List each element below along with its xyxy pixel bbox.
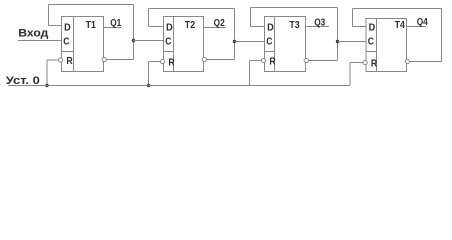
svg-text:T1: T1 bbox=[86, 20, 97, 31]
svg-text:D: D bbox=[166, 22, 173, 33]
flip-flop T2 body outline bbox=[164, 17, 204, 72]
flip-flop T1 body outline bbox=[62, 17, 104, 72]
wire: reset vertical riser of T3 bbox=[249, 61, 251, 86]
wire: clock link T2 to C input of T3 bbox=[235, 41, 265, 43]
svg-text:T2: T2 bbox=[185, 20, 196, 31]
node: junction of T1 feedback and clock link bbox=[132, 39, 135, 42]
T2 separator above R section bbox=[164, 51, 174, 53]
svg-text:C: C bbox=[63, 36, 70, 47]
wire: output stub Q2 bbox=[204, 27, 226, 29]
svg-text:R: R bbox=[371, 59, 378, 70]
wire: output stub Q4 bbox=[407, 26, 427, 28]
wire: feedback top of T1 bbox=[49, 4, 134, 6]
flip-flop T4 body outline bbox=[366, 19, 407, 72]
wire: inverted output of T1 to feedback vertical bbox=[107, 59, 134, 61]
inverted output bubble of T4 bbox=[405, 59, 409, 63]
svg-text:C: C bbox=[368, 36, 375, 47]
T4 separator above R section bbox=[366, 51, 377, 53]
svg-text:D: D bbox=[64, 22, 71, 33]
svg-text:R: R bbox=[168, 58, 175, 69]
T2 control-column divider bbox=[173, 17, 175, 72]
wire: D input of T3 bbox=[251, 26, 265, 28]
wire: feedback left vertical to D of T1 bbox=[48, 5, 50, 26]
flip-flop T3 body outline bbox=[265, 17, 306, 72]
svg-text:T3: T3 bbox=[289, 20, 300, 31]
inverted output bubble of T1 bbox=[102, 57, 106, 61]
wire: feedback top of T4 bbox=[353, 8, 442, 10]
svg-text:C: C bbox=[266, 36, 273, 47]
inverted output bubble of T3 bbox=[304, 58, 308, 62]
wire: reset riser to R of T2 bbox=[149, 61, 161, 63]
T4 control-column divider bbox=[376, 19, 378, 72]
R input inversion bubble of T2 bbox=[160, 59, 164, 63]
T1 separator above R section bbox=[62, 51, 74, 53]
inverted output bubble of T2 bbox=[202, 57, 206, 61]
T1 control-column divider bbox=[73, 17, 75, 72]
wire: output stub Q1 bbox=[104, 27, 122, 29]
T3 separator above R section bbox=[265, 51, 275, 53]
node: reset bus junction at T1 bbox=[45, 84, 48, 87]
wire: reset riser to R of T4 bbox=[350, 62, 363, 64]
svg-text:Q2: Q2 bbox=[214, 18, 225, 29]
wire: reset riser to R of T3 bbox=[250, 60, 262, 62]
svg-text:R: R bbox=[269, 57, 276, 68]
wire: inverted output of T4 to feedback vertical bbox=[410, 61, 442, 63]
wire: Вход to C input of T1 bbox=[18, 40, 62, 42]
wire: feedback left vertical to D of T3 bbox=[250, 8, 252, 27]
svg-text:R: R bbox=[66, 56, 73, 67]
wire: reset vertical riser of T2 bbox=[148, 62, 150, 86]
svg-text:Q4: Q4 bbox=[417, 17, 428, 28]
svg-text:D: D bbox=[267, 22, 274, 33]
wire: feedback right vertical of T4 bbox=[441, 9, 443, 62]
wire: feedback top of T2 bbox=[149, 8, 235, 10]
svg-text:Q1: Q1 bbox=[110, 18, 121, 29]
node: junction of T2 feedback and clock link bbox=[233, 40, 236, 43]
T3 control-column divider bbox=[274, 17, 276, 72]
wire: clock link T1 to C input of T2 bbox=[134, 40, 164, 42]
R input inversion bubble of T3 bbox=[261, 58, 265, 62]
svg-text:Q3: Q3 bbox=[314, 17, 325, 28]
svg-text:C: C bbox=[165, 36, 172, 47]
wire: reset riser to R of T1 bbox=[47, 59, 58, 61]
R input inversion bubble of T1 bbox=[58, 58, 62, 62]
wire: feedback right vertical of T1 bbox=[133, 5, 135, 60]
wire: feedback top of T3 bbox=[251, 7, 338, 9]
node: reset bus junction at T2 bbox=[147, 84, 150, 87]
wire: reset vertical riser of T1 bbox=[46, 60, 48, 86]
wire: feedback right vertical of T2 bbox=[234, 9, 236, 60]
wire: D input of T2 bbox=[149, 26, 164, 28]
wire: feedback right vertical of T3 bbox=[337, 8, 339, 61]
wire: feedback left vertical to D of T2 bbox=[148, 9, 150, 27]
svg-text:D: D bbox=[369, 22, 376, 33]
R input inversion bubble of T4 bbox=[363, 60, 367, 64]
wire: D input of T1 bbox=[49, 25, 62, 27]
svg-text:Вход: Вход bbox=[18, 28, 48, 40]
wire: D input of T4 bbox=[353, 26, 367, 28]
wire: reset bus Уст. 0 bbox=[8, 85, 350, 87]
node: junction of T3 feedback and clock link bbox=[336, 40, 339, 43]
wire: feedback left vertical to D of T4 bbox=[352, 9, 354, 27]
wire: clock link T3 to C input of T4 bbox=[338, 41, 367, 43]
svg-text:T4: T4 bbox=[395, 20, 406, 31]
wire: output stub Q3 bbox=[306, 26, 330, 28]
wire: inverted output of T2 to feedback vertical bbox=[207, 59, 235, 61]
wire: inverted output of T3 to feedback vertical bbox=[309, 60, 338, 62]
wire: reset vertical riser of T4 bbox=[349, 63, 351, 86]
